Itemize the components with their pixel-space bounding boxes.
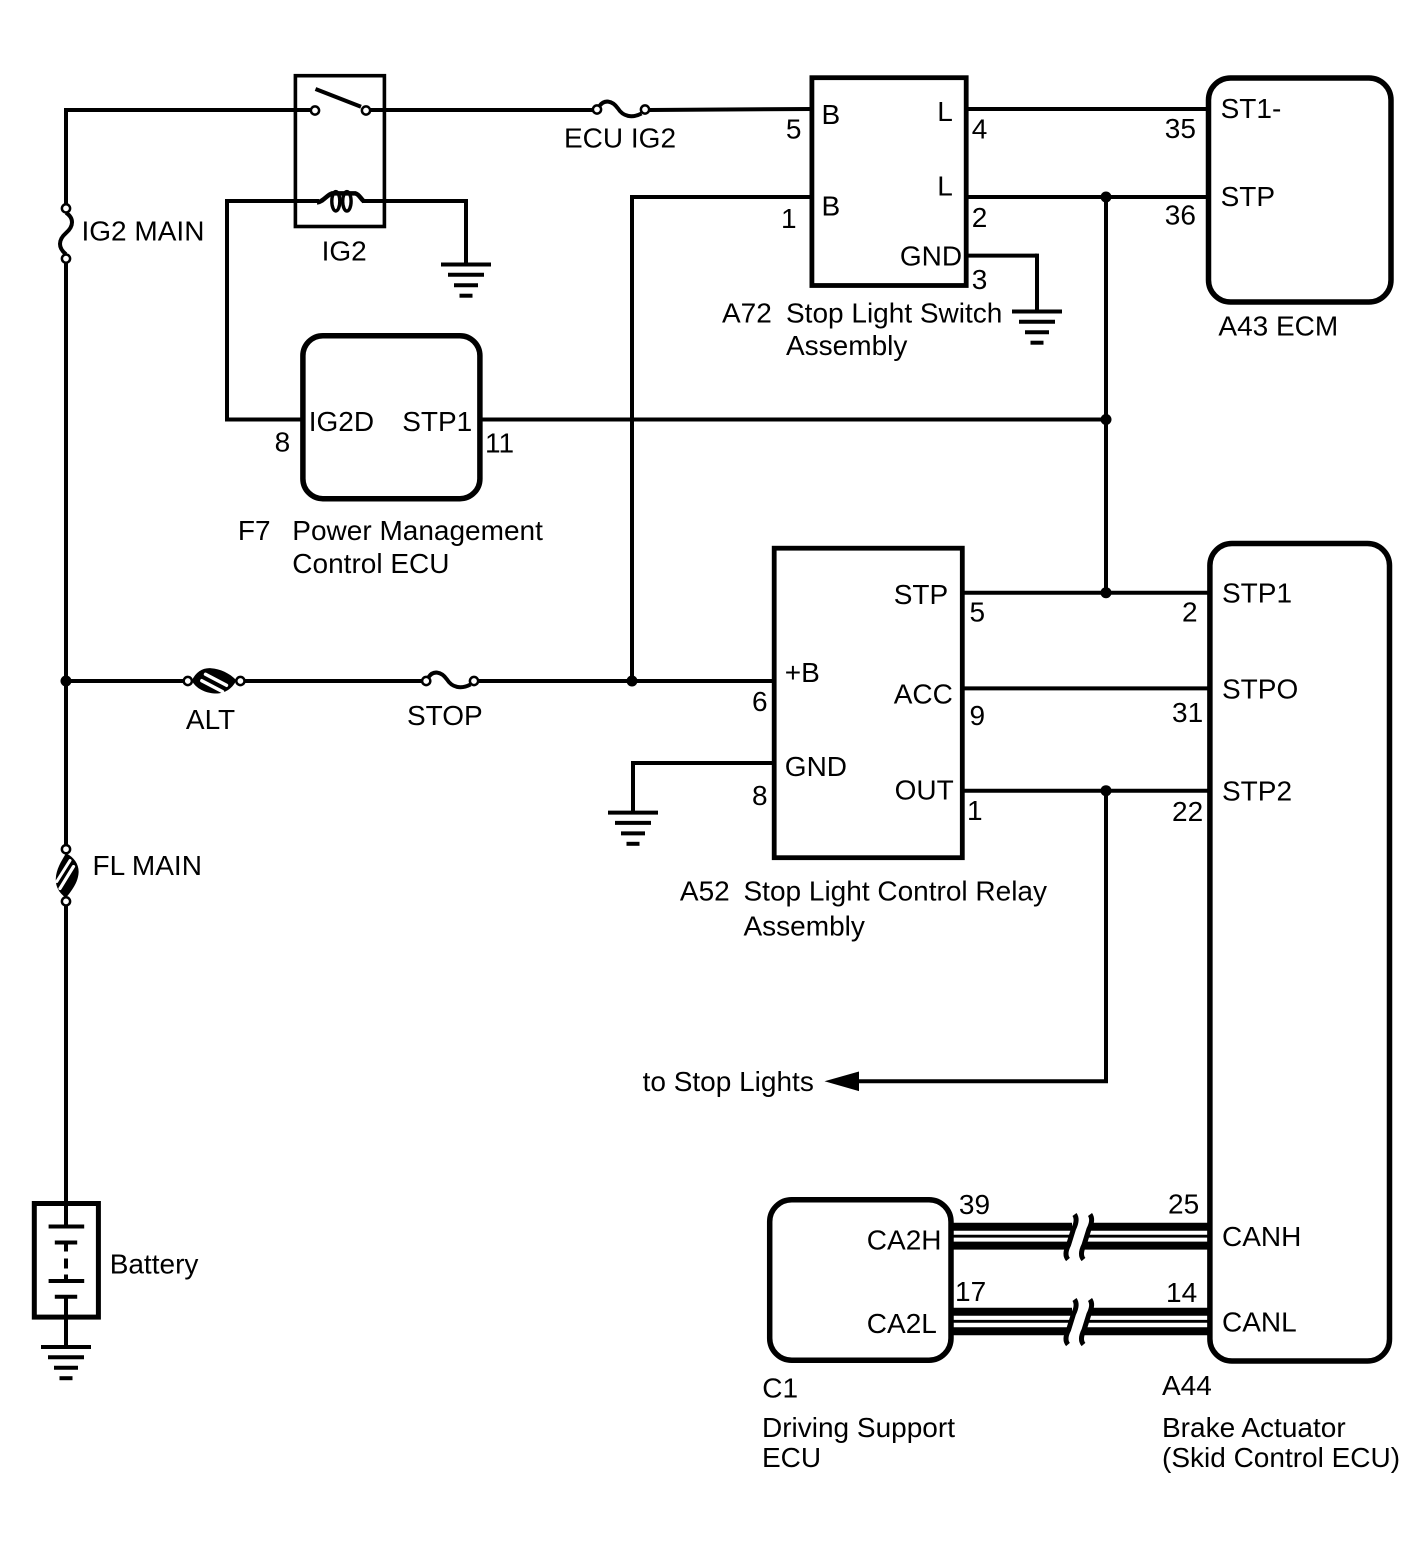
wire: A52 ACC pin 9 to A44 STPO pin 31: [962, 686, 1208, 690]
svg-text:5: 5: [786, 114, 802, 145]
battery cells: [64, 1201, 68, 1227]
wire: A52 OUT pin 1 to A44 STP2 pin 22: [962, 789, 1208, 793]
svg-text:35: 35: [1165, 113, 1196, 144]
wire: A72 pin 2 (L) to ECM STP: [966, 195, 1209, 199]
wire: bus junction down to FL MAIN: [64, 679, 68, 845]
svg-text:+B: +B: [785, 657, 820, 688]
svg-text:CANL: CANL: [1222, 1307, 1297, 1338]
wire: battery negative to ground: [64, 1315, 68, 1347]
wire: STOP fuse to A52 +B pin 6: [478, 679, 774, 683]
battery box: [34, 1204, 98, 1318]
fuse STOP: [422, 677, 430, 685]
svg-text:A43 ECM: A43 ECM: [1218, 311, 1338, 342]
svg-text:3: 3: [972, 264, 988, 295]
svg-text:31: 31: [1172, 697, 1203, 728]
svg-text:ACC: ACC: [894, 678, 953, 709]
svg-text:L: L: [937, 171, 953, 202]
node: junction OUT/stop lights: [1101, 785, 1112, 796]
svg-text:to Stop Lights: to Stop Lights: [643, 1066, 814, 1097]
harness break marks (CANL): [1066, 1300, 1076, 1345]
svg-text:CA2L: CA2L: [867, 1308, 937, 1339]
svg-text:4: 4: [972, 114, 988, 145]
svg-text:Battery: Battery: [110, 1249, 199, 1280]
svg-text:36: 36: [1165, 200, 1196, 231]
wire: ALT to STOP fuse: [245, 679, 422, 683]
svg-text:CA2H: CA2H: [867, 1224, 942, 1255]
switch assembly A72 box: [812, 78, 966, 286]
svg-text:B: B: [822, 190, 841, 221]
wire: A72 pin 4 (L) to ECM ST1-: [966, 107, 1209, 111]
node: junction at STOP feed: [627, 676, 638, 687]
relay IG2 switch contacts: [311, 106, 319, 114]
wire: CAN twisted pair CANH (C1 CA2H pin 39 to A44 CANH pin 25): [951, 1223, 1072, 1231]
node: junction STP1/STP: [1101, 414, 1112, 425]
svg-text:ECU: ECU: [762, 1442, 821, 1473]
svg-text:STP2: STP2: [1222, 776, 1292, 807]
svg-text:(Skid Control ECU): (Skid Control ECU): [1162, 1442, 1400, 1473]
svg-text:Assembly: Assembly: [744, 910, 865, 941]
svg-text:8: 8: [275, 426, 291, 457]
svg-text:Stop Light Control Relay: Stop Light Control Relay: [744, 876, 1048, 907]
svg-text:OUT: OUT: [895, 774, 954, 805]
svg-text:C1: C1: [762, 1373, 798, 1404]
fusible link FL MAIN: [62, 845, 70, 853]
svg-text:14: 14: [1166, 1277, 1197, 1308]
svg-text:2: 2: [1182, 596, 1198, 627]
ECU F7 box: [303, 336, 480, 499]
svg-text:F7: F7: [238, 515, 271, 546]
wire: fuse to A72 pin 5: [649, 109, 812, 110]
svg-text:GND: GND: [900, 241, 962, 272]
svg-text:5: 5: [970, 596, 986, 627]
svg-text:ALT: ALT: [186, 704, 235, 735]
ECU A43 ECM box: [1209, 78, 1392, 302]
relay IG2 coil: [227, 199, 319, 203]
ground (A52 GND): [608, 811, 658, 815]
ground (battery): [41, 1345, 91, 1349]
ground (IG2 relay coil): [441, 263, 491, 267]
wire: A52 GND pin 8 to ground: [633, 761, 774, 765]
arrow to stop lights: [825, 1072, 860, 1092]
node: junction STP/STP1: [1101, 587, 1112, 598]
wire: FL MAIN to battery: [64, 906, 68, 1204]
svg-text:Assembly: Assembly: [786, 330, 907, 361]
node: junction bus/ALT: [61, 676, 72, 687]
svg-text:2: 2: [972, 202, 988, 233]
wire: STP junction down to A52 STP: [1104, 197, 1108, 595]
wire: bus junction to ALT link: [66, 679, 184, 683]
svg-text:STP1: STP1: [1222, 578, 1292, 609]
svg-text:A52: A52: [680, 876, 730, 907]
svg-text:ST1-: ST1-: [1221, 93, 1282, 124]
relay IG2 box: [295, 76, 384, 227]
svg-text:Driving Support: Driving Support: [762, 1412, 955, 1443]
svg-text:6: 6: [752, 686, 768, 717]
svg-text:39: 39: [959, 1189, 990, 1220]
svg-text:Power Management: Power Management: [292, 515, 543, 546]
ground (A72 pin 3): [1012, 310, 1062, 314]
svg-text:GND: GND: [785, 751, 847, 782]
svg-text:Stop Light Switch: Stop Light Switch: [786, 298, 1002, 329]
svg-text:A72: A72: [722, 298, 772, 329]
svg-text:ECU IG2: ECU IG2: [564, 123, 676, 154]
node: junction on STP wire: [1101, 192, 1112, 203]
fusible link IG2 MAIN: [62, 204, 70, 212]
ECU C1 Driving Support box: [770, 1200, 951, 1361]
wire: A72 pin 3 GND to ground: [966, 254, 1037, 258]
svg-text:STP1: STP1: [402, 406, 472, 437]
relay assembly A52 box: [774, 548, 962, 858]
wire: CAN twisted pair CANL (C1 CA2L pin 17 to A44 CANL pin 14): [951, 1308, 1072, 1316]
svg-text:IG2: IG2: [322, 236, 367, 267]
svg-text:22: 22: [1172, 796, 1203, 827]
wire: F7 STP1 pin 11 to STP junction: [480, 418, 1106, 422]
harness break marks (CANH): [1066, 1215, 1076, 1260]
wire: coil right leg to ground: [464, 199, 468, 265]
svg-text:Brake Actuator: Brake Actuator: [1162, 1412, 1346, 1443]
svg-text:1: 1: [967, 795, 983, 826]
svg-text:Control ECU: Control ECU: [292, 548, 449, 579]
svg-text:STP: STP: [1221, 181, 1275, 212]
svg-text:STOP: STOP: [407, 700, 483, 731]
fuse ECU IG2: [593, 105, 601, 113]
svg-text:STP: STP: [894, 579, 948, 610]
wire: coil left leg down to F7 IG2D: [225, 199, 229, 420]
wire: left bus IG2 MAIN to ALT junction: [64, 263, 68, 683]
svg-text:FL MAIN: FL MAIN: [93, 850, 202, 881]
svg-text:CANH: CANH: [1222, 1221, 1301, 1252]
svg-text:B: B: [822, 99, 841, 130]
wire: A52 STP pin 5 to A44 STP1 pin 2: [962, 591, 1208, 595]
wire: top feed from battery bus to IG2 switch contact: [64, 108, 68, 204]
wire: OUT junction down to stop lights arrow: [1104, 789, 1108, 1082]
fusible link ALT: [184, 677, 192, 685]
svg-text:L: L: [937, 96, 953, 127]
svg-text:17: 17: [955, 1276, 986, 1307]
svg-text:A44: A44: [1162, 1370, 1212, 1401]
svg-text:11: 11: [485, 428, 514, 459]
wire: A72 pin 1 (B) left then down to +B feed: [632, 195, 812, 199]
ECU A44 Brake Actuator box: [1210, 544, 1390, 1362]
svg-text:9: 9: [970, 700, 986, 731]
wire: switch to ECU IG2 fuse: [370, 108, 593, 112]
svg-text:25: 25: [1168, 1189, 1199, 1220]
svg-text:IG2D: IG2D: [309, 406, 374, 437]
svg-text:8: 8: [752, 780, 768, 811]
svg-text:1: 1: [781, 203, 797, 234]
svg-text:IG2 MAIN: IG2 MAIN: [82, 215, 205, 246]
svg-text:STPO: STPO: [1222, 673, 1298, 704]
relay IG2 switch arm: [316, 89, 362, 107]
